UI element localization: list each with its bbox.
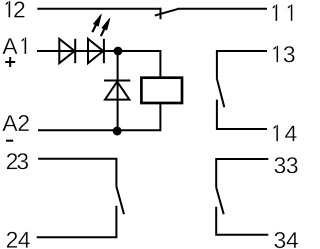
- wire terminal 13 to NO contact 13-14: [217, 51, 267, 78]
- diode D1 (series polarity diode): [59, 39, 75, 63]
- freewheeling diode wire (junction to A2): [117, 51, 119, 131]
- wire A1 through diodes to relay coil top: [37, 51, 160, 76]
- NC contact 11-12 movable blade: [155, 9, 179, 16]
- terminal label 23: [7, 153, 28, 169]
- junction node at A2: [113, 127, 122, 136]
- wire NO contact 13-14 to terminal 14: [217, 100, 267, 129]
- freewheeling diode: [104, 81, 130, 100]
- wire relay coil bottom to A2: [38, 104, 160, 130]
- terminal label A1: [2, 37, 26, 54]
- NO contact 33-34 movable blade: [216, 187, 224, 214]
- terminal label 11: [273, 4, 293, 21]
- relay coil K1: [141, 78, 182, 103]
- wire NC contact 11-12 to terminal 11: [178, 8, 268, 10]
- terminal label 13: [273, 46, 294, 63]
- terminal label A2: [2, 115, 29, 131]
- wire terminal 33 to NO contact 33-34: [216, 159, 268, 187]
- LED light emission arrows: [92, 14, 110, 36]
- NO contact 13-14 movable blade: [217, 78, 225, 107]
- LED indicator diode: [88, 39, 104, 63]
- terminal label 14: [273, 125, 296, 142]
- wire NO contact 33-34 to terminal 34: [216, 207, 268, 235]
- wire terminal 12 to NC contact 11-12: [37, 8, 160, 10]
- terminal label 34: [274, 232, 298, 248]
- NC contact 11-12 fixed contact tick: [160, 8, 162, 20]
- terminal label 33: [274, 157, 297, 173]
- plus polarity mark: [5, 57, 15, 67]
- wire terminal 23 to NO contact 23-24: [38, 159, 116, 187]
- terminal label 12: [6, 1, 25, 18]
- terminal label 24: [7, 232, 30, 248]
- junction node A1/coil/freewheel diode: [114, 47, 123, 56]
- wire NO contact 23-24 to terminal 24: [37, 206, 117, 238]
- NO contact 23-24 movable blade: [116, 186, 124, 214]
- minus polarity mark: [6, 140, 13, 142]
